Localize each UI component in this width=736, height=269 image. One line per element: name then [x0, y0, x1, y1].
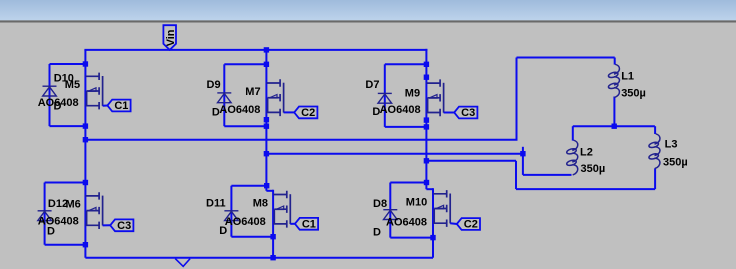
title-bar bottom shadow line	[0, 20, 736, 22]
wire cell3 top horizontal	[385, 63, 427, 65]
node left bus / cell1 bottom	[83, 123, 88, 128]
wire cell4 diode leg	[44, 183, 46, 245]
svg-text:D: D	[47, 226, 55, 238]
wire cell5 top horizontal	[231, 185, 266, 187]
wire M7 gate lead	[284, 111, 295, 113]
node left bus / cell4 drain	[83, 180, 88, 185]
node L1-L2-L3 star point	[612, 124, 617, 129]
node middle bus / cell2 drain	[264, 62, 269, 67]
wire right bus upper (phase C leg)	[425, 49, 427, 189]
svg-text:M6: M6	[66, 199, 81, 211]
net flag C2 (M7 gate)	[294, 107, 317, 119]
transistor M5	[85, 73, 102, 110]
wire M10 gate lead	[450, 222, 457, 225]
svg-text:D: D	[212, 107, 220, 119]
wire right bus lower	[432, 188, 434, 258]
node right bus segment joint lower	[424, 117, 429, 122]
wire phase B stub and drop	[522, 147, 524, 175]
net flag Vin (pentagon pointing down onto rail)	[163, 25, 176, 50]
wire cell1 bottom horizontal	[50, 125, 86, 127]
svg-text:D8: D8	[373, 198, 387, 210]
node Vin rail / middle bus	[264, 47, 269, 52]
inductor L3 coil	[648, 134, 660, 169]
diode D11	[224, 211, 238, 221]
wire L3 top lead	[654, 126, 656, 134]
svg-text:AO6408: AO6408	[225, 216, 266, 228]
svg-text:D: D	[219, 225, 227, 237]
node middle bus segment joint	[264, 117, 269, 122]
wire L3 bottom riser	[654, 168, 656, 189]
svg-text:350µ: 350µ	[663, 156, 688, 168]
wire left bus (phase A leg)	[84, 50, 86, 258]
wire cell6 diode leg	[389, 183, 391, 238]
wire phase C to L3 bottom	[516, 188, 655, 190]
svg-text:D11: D11	[206, 197, 226, 209]
net flag C3 (M6 gate)	[110, 219, 133, 231]
svg-text:D: D	[373, 227, 381, 239]
wire cell1 diode leg	[49, 64, 51, 126]
ground symbol	[175, 259, 190, 267]
wire middle bus jog	[266, 190, 273, 192]
wire cell5 bottom horizontal	[231, 236, 273, 238]
svg-text:M5: M5	[65, 79, 80, 91]
svg-text:AO6408: AO6408	[38, 216, 79, 228]
inductor L2 coil	[566, 140, 578, 175]
svg-text:350µ: 350µ	[621, 87, 646, 99]
wire cell2 top horizontal	[224, 63, 266, 65]
svg-text:L1: L1	[621, 70, 634, 82]
wire L2 top lead	[572, 126, 574, 140]
wire phase A horizontal	[85, 139, 517, 141]
diode D9	[217, 93, 231, 103]
wire middle bus lower	[272, 190, 274, 258]
node phase A tap	[83, 137, 88, 142]
svg-text:350µ: 350µ	[581, 163, 606, 175]
svg-text:Vin: Vin	[165, 29, 177, 46]
svg-text:C3: C3	[117, 220, 131, 232]
node middle bus / cell5 drain	[264, 183, 269, 188]
wire phase A to L1 top	[517, 57, 615, 59]
wire middle bus upper (phase B leg)	[265, 50, 267, 191]
svg-text:M9: M9	[405, 88, 420, 100]
node phase B / L2 branch	[520, 151, 525, 156]
wire ground rail	[85, 257, 433, 259]
transistor M7	[266, 79, 283, 116]
svg-text:D: D	[372, 106, 380, 118]
node right bus / cell6 bottom	[430, 235, 435, 240]
diode D7	[378, 93, 392, 103]
node middle bus / cell5 bottom	[270, 234, 275, 239]
svg-text:M7: M7	[245, 86, 260, 98]
node right bus / cell3 drain	[424, 62, 429, 67]
node phase B tap	[264, 151, 269, 156]
wire cell1 top horizontal	[50, 63, 86, 65]
window title-bar gradient	[0, 0, 736, 20]
wire cell5 diode leg	[230, 186, 232, 237]
diode D12	[38, 211, 52, 221]
diode D8	[383, 210, 397, 220]
wire M9 gate lead	[444, 112, 455, 114]
wire phase B to L2 bottom	[523, 174, 572, 176]
node left bus / cell4 bottom	[83, 242, 88, 247]
wire phase A vertical riser	[516, 58, 518, 140]
svg-text:AO6408: AO6408	[219, 104, 260, 116]
node middle bus / cell2 bottom	[264, 124, 269, 129]
svg-text:M8: M8	[253, 198, 268, 210]
svg-text:C3: C3	[461, 107, 475, 119]
wire cell4 top horizontal	[45, 182, 86, 184]
transistor M8	[273, 191, 290, 228]
svg-text:C2: C2	[464, 219, 478, 231]
wire cell2 bottom horizontal	[224, 125, 266, 127]
transistor M9	[426, 79, 443, 116]
wire cell3 diode leg	[384, 64, 386, 127]
wire phase C drop	[515, 161, 517, 189]
node right bus / cell3 bottom	[424, 124, 429, 129]
wire phase C horizontal	[426, 160, 516, 162]
svg-text:C2: C2	[301, 107, 315, 119]
wire cell6 bottom horizontal	[390, 237, 433, 239]
net flag C2 (M10 gate)	[457, 218, 480, 230]
wire right bus jog	[426, 188, 433, 190]
wire Vin top rail	[84, 49, 427, 51]
inductor L1 lead	[614, 58, 616, 65]
wire cell4 bottom horizontal	[45, 244, 86, 246]
node right bus / cell6 drain	[424, 180, 429, 185]
transistor M10	[433, 190, 450, 227]
svg-text:D7: D7	[365, 79, 379, 91]
inductor L1 coil	[608, 64, 620, 97]
net label Vin text (rotated)	[165, 29, 177, 46]
diode D10	[43, 86, 57, 96]
net flag C3 (M9 gate)	[454, 107, 477, 119]
svg-text:D9: D9	[207, 79, 221, 91]
node middle bus / ground rail	[270, 255, 275, 260]
svg-text:D: D	[54, 101, 62, 113]
svg-text:AO6408: AO6408	[386, 216, 427, 228]
wire M5 gate lead	[103, 105, 108, 107]
wire cell6 top horizontal	[390, 182, 426, 184]
node phase C tap	[424, 158, 429, 163]
svg-text:C1: C1	[114, 100, 128, 112]
wire M8 gate lead	[290, 223, 295, 225]
wire M6 gate lead	[103, 224, 111, 226]
svg-text:AO6408: AO6408	[380, 104, 421, 116]
svg-text:M10: M10	[406, 197, 427, 209]
wire L1-L2-L3 tie bar	[573, 125, 655, 127]
wire cell2 diode leg	[223, 64, 225, 126]
net flag C1 (M8 gate)	[295, 218, 318, 230]
net flag C1 (M5 gate)	[107, 100, 130, 112]
svg-text:C1: C1	[302, 218, 316, 230]
svg-text:L2: L2	[580, 146, 593, 158]
wire phase B horizontal	[266, 153, 523, 155]
node left bus / cell1 drain	[83, 61, 88, 66]
wire L1 bottom lead	[613, 97, 615, 127]
transistor M6	[85, 192, 102, 229]
svg-text:L3: L3	[665, 138, 678, 150]
node right bus segment joint upper	[424, 75, 429, 80]
wire cell3 bottom horizontal	[385, 126, 427, 128]
